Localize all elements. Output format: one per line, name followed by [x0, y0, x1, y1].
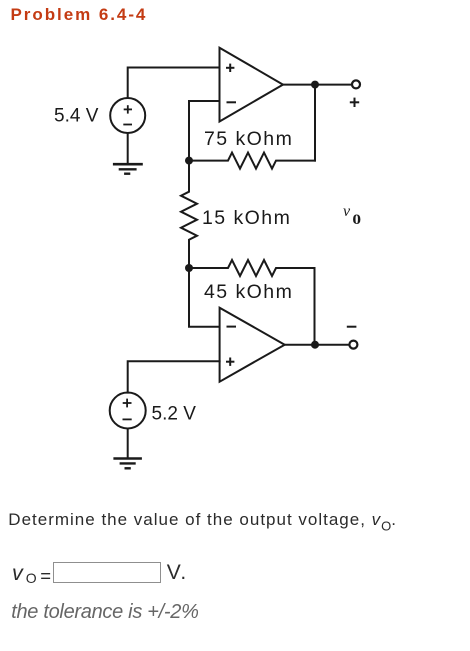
svg-text:75 kOhm: 75 kOhm	[204, 128, 293, 150]
svg-text:5.4 V: 5.4 V	[54, 106, 99, 127]
svg-text:15 kOhm: 15 kOhm	[202, 207, 291, 229]
svg-text:0: 0	[352, 212, 361, 227]
svg-text:5.2 V: 5.2 V	[152, 404, 197, 425]
svg-text:45 kOhm: 45 kOhm	[204, 281, 293, 303]
svg-text:v: v	[343, 203, 351, 220]
